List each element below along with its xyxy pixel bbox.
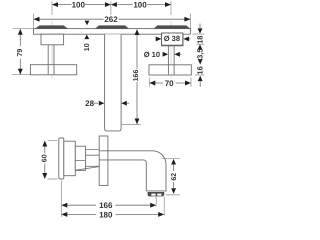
- wall flange: [59, 138, 64, 179]
- arrow up to crossbar bottom: [198, 76, 203, 81]
- dim 60: [42, 140, 58, 179]
- dim 28: [85, 99, 129, 108]
- dim line 100 left: [52, 4, 171, 6]
- handle right escutcheon: [162, 34, 183, 46]
- arrow up: [198, 44, 203, 49]
- svg-text:10: 10: [84, 43, 91, 51]
- center line handle left: [51, 21, 53, 79]
- dim 10 plate thickness: [84, 21, 91, 52]
- extension lines bottom dims: [61, 181, 164, 218]
- dim line 262: [34, 18, 191, 20]
- extension line handle-right center: [170, 1, 172, 15]
- arrows top dims: [34, 2, 191, 22]
- handle left stem through crossbar: [48, 65, 54, 75]
- dim 79: [12, 28, 34, 74]
- svg-text:Ø 10: Ø 10: [144, 50, 160, 59]
- spout tube: [99, 151, 166, 191]
- dim 62: [162, 159, 180, 195]
- dim 166 bottom: [61, 201, 156, 210]
- handle left stem: [48, 45, 54, 75]
- svg-text:Ø 38: Ø 38: [164, 34, 180, 43]
- svg-text:18: 18: [196, 36, 205, 44]
- handle left escutcheon: [41, 34, 64, 45]
- svg-text:262: 262: [104, 15, 118, 24]
- svg-text:180: 180: [99, 210, 113, 219]
- extension line plate right: [189, 14, 191, 29]
- pipe taper: [76, 167, 100, 171]
- extension line spout center: [110, 1, 112, 15]
- handle left crossbar: [30, 65, 76, 75]
- svg-text:100: 100: [72, 0, 86, 9]
- wire: [34, 1, 191, 28]
- aerator: [148, 192, 165, 196]
- svg-text:28: 28: [85, 99, 94, 108]
- handle right crossbar: [149, 65, 191, 75]
- svg-text:100: 100: [133, 0, 147, 9]
- svg-text:70: 70: [165, 79, 174, 88]
- svg-text:62: 62: [171, 173, 178, 181]
- supply pipes: [76, 149, 100, 166]
- handle right stem through crossbar: [168, 65, 174, 75]
- extension line handle-left center: [51, 1, 53, 15]
- trim pad middle: [95, 25, 129, 28]
- trim pad left: [35, 25, 68, 28]
- dim 180 bottom: [61, 210, 164, 219]
- tick crossbar bottom: [195, 74, 204, 76]
- dim 70: [149, 78, 191, 88]
- spout escutcheon side: [99, 136, 108, 186]
- svg-text:60: 60: [42, 154, 49, 162]
- svg-text:79: 79: [17, 49, 24, 57]
- svg-text:3,5: 3,5: [195, 48, 204, 58]
- spout top view: [105, 34, 122, 131]
- center line handle right: [170, 21, 172, 79]
- dim D10: [144, 50, 182, 59]
- tick plate bottom: [193, 33, 205, 35]
- handle right stem: [168, 45, 174, 75]
- dim 166 vertical: [121, 29, 141, 124]
- arrow down: [198, 59, 203, 64]
- sleeve: [75, 146, 85, 170]
- wall plate top view: [34, 29, 191, 35]
- label box D38: [156, 33, 191, 45]
- svg-text:16: 16: [195, 66, 204, 74]
- svg-text:166: 166: [133, 70, 140, 82]
- valve body: [64, 141, 76, 176]
- arrow down to plate bottom: [198, 28, 203, 33]
- extension line plate left: [33, 14, 35, 29]
- svg-text:166: 166: [99, 201, 113, 210]
- right small dims stack: [193, 24, 205, 87]
- trim pad right: [154, 25, 191, 28]
